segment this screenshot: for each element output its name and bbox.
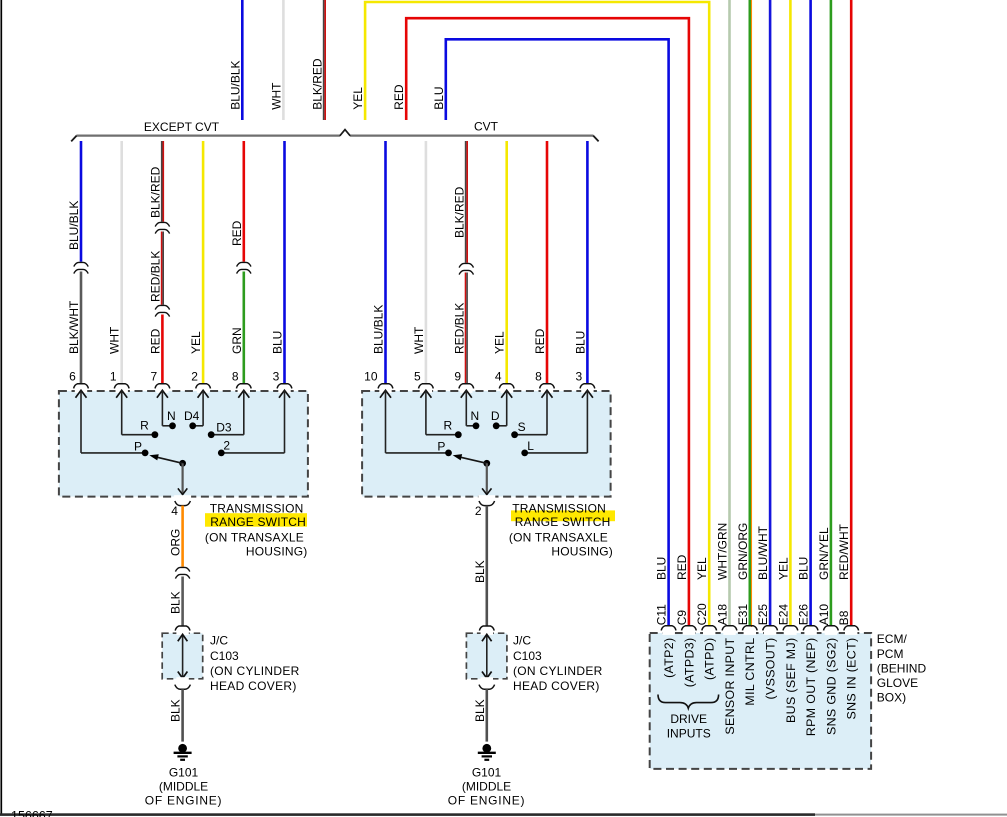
svg-text:RED: RED — [675, 554, 689, 580]
svg-text:BLU: BLU — [573, 331, 587, 354]
svg-text:OF ENGINE): OF ENGINE) — [448, 793, 526, 807]
svg-text:E25: E25 — [756, 604, 770, 626]
svg-text:RED: RED — [392, 84, 406, 110]
svg-text:8: 8 — [535, 369, 542, 383]
svg-text:P: P — [134, 439, 142, 453]
svg-text:HOUSING): HOUSING) — [246, 544, 308, 558]
svg-text:8: 8 — [232, 369, 239, 383]
svg-text:GLOVE: GLOVE — [877, 676, 918, 690]
svg-text:J/C: J/C — [513, 634, 531, 648]
svg-text:R: R — [140, 419, 149, 433]
svg-text:BLK/RED: BLK/RED — [148, 166, 162, 218]
svg-text:ECM/: ECM/ — [877, 632, 908, 646]
svg-text:BLU/BLK: BLU/BLK — [67, 201, 81, 250]
svg-text:6: 6 — [69, 369, 76, 383]
svg-text:(MIDDLE: (MIDDLE — [462, 780, 511, 794]
svg-text:YEL: YEL — [351, 87, 365, 110]
svg-text:E26: E26 — [797, 604, 811, 626]
svg-text:(ATP2): (ATP2) — [662, 638, 676, 678]
svg-text:D4: D4 — [184, 409, 200, 423]
svg-text:CVT: CVT — [474, 120, 499, 134]
svg-text:WHT/GRN: WHT/GRN — [716, 523, 730, 580]
svg-text:G101: G101 — [472, 765, 502, 779]
svg-text:DRIVE: DRIVE — [670, 712, 707, 726]
svg-text:YEL: YEL — [493, 331, 507, 354]
svg-text:4: 4 — [171, 504, 178, 518]
svg-text:BLU: BLU — [271, 331, 285, 354]
svg-text:GRN: GRN — [230, 327, 244, 354]
svg-text:P: P — [437, 439, 445, 453]
svg-text:YEL: YEL — [695, 557, 709, 580]
svg-text:S: S — [518, 420, 526, 434]
svg-text:E24: E24 — [776, 604, 790, 626]
svg-text:PCM: PCM — [877, 647, 904, 661]
svg-text:HOUSING): HOUSING) — [551, 544, 613, 558]
svg-text:YEL: YEL — [189, 331, 203, 354]
svg-text:E31: E31 — [736, 604, 750, 626]
svg-text:RED: RED — [148, 328, 162, 354]
svg-text:GRN/YEL: GRN/YEL — [817, 527, 831, 580]
svg-text:9: 9 — [454, 369, 461, 383]
svg-text:L: L — [527, 439, 534, 453]
svg-text:(MIDDLE: (MIDDLE — [159, 780, 208, 794]
svg-text:INPUTS: INPUTS — [667, 726, 711, 740]
svg-text:WHT: WHT — [412, 326, 426, 354]
svg-text:(ON TRANSAXLE: (ON TRANSAXLE — [205, 530, 304, 544]
svg-text:RANGE SWITCH: RANGE SWITCH — [210, 515, 306, 529]
svg-text:3: 3 — [273, 369, 280, 383]
svg-text:BLK: BLK — [473, 560, 487, 583]
svg-text:G101: G101 — [169, 765, 199, 779]
svg-text:7: 7 — [151, 369, 158, 383]
svg-text:N: N — [470, 409, 479, 423]
svg-text:BLU: BLU — [432, 86, 446, 109]
svg-text:2: 2 — [191, 369, 198, 383]
svg-text:EXCEPT CVT: EXCEPT CVT — [144, 120, 220, 134]
svg-text:(ATPD): (ATPD) — [703, 638, 717, 680]
svg-text:RED: RED — [533, 328, 547, 354]
svg-text:BUS (SEF MJ): BUS (SEF MJ) — [784, 638, 798, 723]
svg-text:SENSOR INPUT: SENSOR INPUT — [723, 637, 737, 734]
svg-text:HEAD COVER): HEAD COVER) — [513, 679, 600, 693]
svg-text:C9: C9 — [675, 610, 689, 626]
svg-text:ORG: ORG — [169, 529, 183, 556]
svg-text:GRN/ORG: GRN/ORG — [736, 523, 750, 580]
svg-text:BLK/RED: BLK/RED — [452, 186, 466, 238]
svg-text:RANGE SWITCH: RANGE SWITCH — [515, 515, 611, 529]
svg-text:156667: 156667 — [11, 809, 53, 817]
svg-text:(VSSOUT): (VSSOUT) — [764, 638, 778, 700]
svg-text:YEL: YEL — [776, 557, 790, 580]
svg-text:BLK: BLK — [473, 699, 487, 722]
svg-text:BLK: BLK — [169, 699, 183, 722]
svg-text:5: 5 — [414, 369, 421, 383]
svg-text:MIL CNTRL: MIL CNTRL — [743, 638, 757, 706]
svg-text:SNS GND (SG2): SNS GND (SG2) — [824, 638, 838, 736]
svg-text:J/C: J/C — [210, 634, 228, 648]
svg-text:B8: B8 — [837, 610, 851, 625]
svg-text:10: 10 — [364, 369, 378, 383]
svg-text:BLK/WHT: BLK/WHT — [67, 300, 81, 354]
svg-text:A10: A10 — [817, 604, 831, 626]
svg-text:TRANSMISSION: TRANSMISSION — [210, 501, 304, 515]
svg-text:WHT: WHT — [108, 326, 122, 354]
svg-text:BLK: BLK — [169, 591, 183, 614]
svg-text:2: 2 — [475, 504, 482, 518]
svg-text:RED/BLK: RED/BLK — [148, 251, 162, 302]
svg-text:RED/BLK: RED/BLK — [452, 303, 466, 354]
svg-text:BLU: BLU — [655, 557, 669, 580]
svg-text:BOX): BOX) — [877, 691, 906, 705]
svg-text:D3: D3 — [216, 421, 232, 435]
svg-text:C11: C11 — [655, 604, 669, 625]
svg-text:BLU: BLU — [797, 557, 811, 580]
svg-text:BLU/BLK: BLU/BLK — [228, 60, 242, 109]
svg-text:WHT: WHT — [269, 82, 283, 110]
svg-text:RED/WHT: RED/WHT — [837, 523, 851, 580]
svg-text:C103: C103 — [513, 649, 542, 663]
svg-text:HEAD COVER): HEAD COVER) — [210, 679, 297, 693]
svg-text:TRANSMISSION: TRANSMISSION — [512, 501, 606, 515]
svg-text:SNS IN (ECT): SNS IN (ECT) — [845, 638, 859, 720]
svg-text:OF ENGINE): OF ENGINE) — [145, 793, 223, 807]
svg-text:C103: C103 — [210, 649, 239, 663]
svg-text:C20: C20 — [695, 603, 709, 625]
svg-text:(ON CYLINDER: (ON CYLINDER — [210, 664, 300, 678]
svg-text:N: N — [167, 409, 176, 423]
svg-text:A18: A18 — [716, 604, 730, 626]
svg-text:RPM OUT (NEP): RPM OUT (NEP) — [804, 638, 818, 737]
svg-text:(BEHIND: (BEHIND — [877, 661, 927, 675]
svg-text:(ON TRANSAXLE: (ON TRANSAXLE — [509, 530, 608, 544]
svg-text:2: 2 — [223, 438, 230, 452]
svg-text:R: R — [443, 419, 452, 433]
svg-text:3: 3 — [576, 369, 583, 383]
svg-text:1: 1 — [110, 369, 117, 383]
svg-text:D: D — [491, 409, 500, 423]
svg-text:RED: RED — [230, 220, 244, 246]
svg-text:BLK/RED: BLK/RED — [310, 58, 324, 110]
svg-text:(ATPD3): (ATPD3) — [682, 638, 696, 688]
svg-text:BLU/WHT: BLU/WHT — [756, 525, 770, 580]
svg-text:BLU/BLK: BLU/BLK — [372, 305, 386, 354]
svg-text:(ON CYLINDER: (ON CYLINDER — [513, 664, 603, 678]
svg-text:4: 4 — [495, 369, 502, 383]
